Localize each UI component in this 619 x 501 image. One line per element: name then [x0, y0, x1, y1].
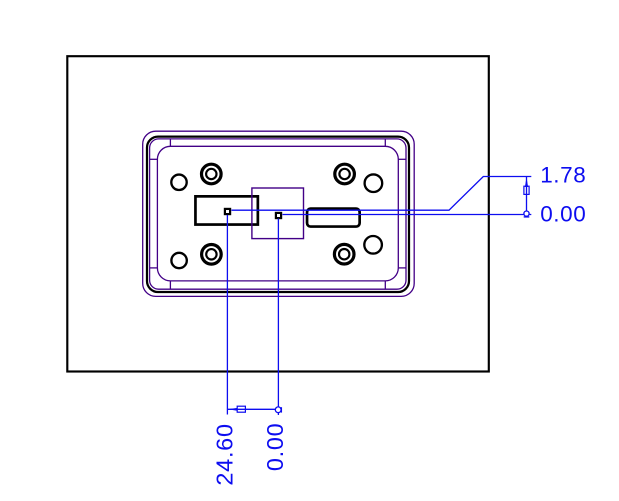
outer plate square [67, 56, 489, 371]
dimension leader 1.78 [232, 177, 532, 211]
extension line S1 vertical [226, 215, 228, 415]
hole top-left washer [202, 164, 222, 184]
dimension leader 0.00 horizontal [283, 214, 532, 216]
arrow up box [524, 186, 529, 194]
extension line S2 vertical [277, 219, 279, 415]
hole top-right washer [335, 164, 355, 184]
pocket rectangle [195, 196, 257, 224]
hole bottom-right plain [364, 236, 382, 254]
svg-text:0.00: 0.00 [540, 202, 586, 227]
datum circle right [524, 211, 529, 216]
arrow left spike [228, 408, 238, 411]
sketch rectangle [252, 188, 304, 239]
datum underline right [524, 216, 530, 218]
corner tick top-left [150, 139, 171, 159]
slot [307, 209, 360, 227]
datum underline bottom [280, 407, 282, 412]
arrow left box [237, 406, 245, 412]
corner tick top-right [385, 139, 406, 159]
svg-text:24.60: 24.60 [211, 423, 237, 485]
point marker S1 [225, 209, 230, 214]
hole top-right plain [365, 174, 383, 192]
plate fillet tangent edge (inner) [157, 146, 398, 281]
ordinate stem vertical right [526, 177, 528, 214]
hole top-left plain [171, 175, 186, 190]
point marker S2 [276, 213, 281, 218]
arrow up spike [525, 177, 528, 187]
hole bottom-right washer [334, 244, 354, 264]
plate top face edge [147, 137, 409, 292]
hole bottom-left plain [171, 253, 186, 268]
svg-text:1.78: 1.78 [540, 162, 586, 187]
corner tick bottom-right [385, 268, 406, 289]
plate outer silhouette (tangent edge) [143, 131, 415, 296]
corner tick bottom-left [150, 268, 171, 289]
hole bottom-left washer [202, 245, 222, 265]
svg-text:0.00: 0.00 [262, 423, 288, 472]
datum circle bottom [275, 407, 281, 413]
plate fillet tangent edge (mid) [150, 139, 406, 289]
ordinate stem horizontal bottom [228, 408, 276, 410]
